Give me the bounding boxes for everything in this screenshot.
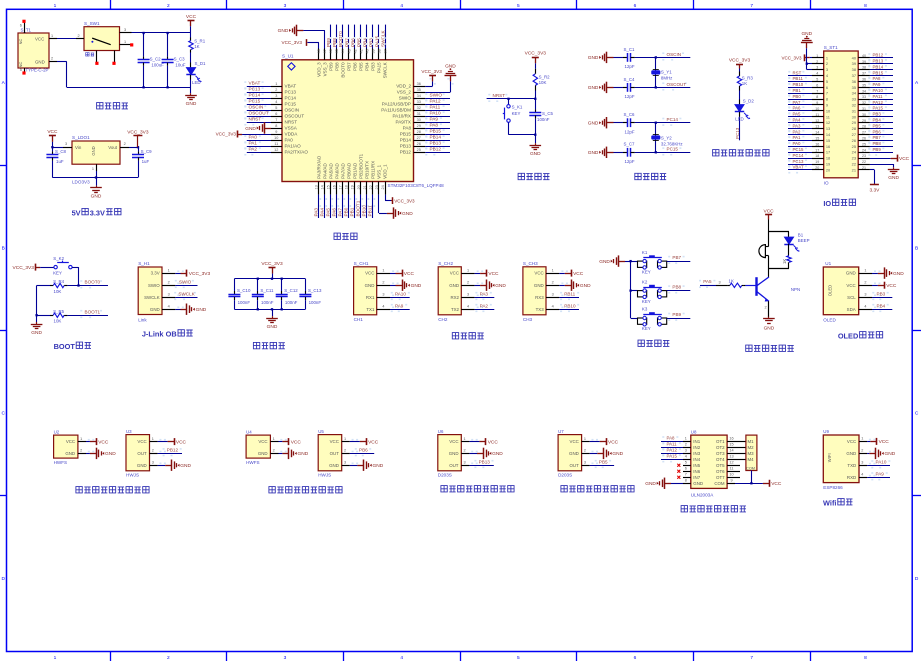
svg-text:PB10: PB10 <box>564 303 576 308</box>
svg-text:11: 11 <box>274 142 278 146</box>
LED alarm <box>788 232 790 238</box>
svg-text:PC13: PC13 <box>285 90 297 95</box>
svg-text:OSCOUT: OSCOUT <box>285 114 305 119</box>
svg-text:9: 9 <box>816 101 818 105</box>
caption stepper <box>681 506 687 512</box>
ground U1 VSS_1 <box>378 195 380 214</box>
svg-text:15: 15 <box>815 137 819 141</box>
svg-text:30: 30 <box>417 118 421 122</box>
svg-text:OT5: OT5 <box>716 463 725 468</box>
pin U6.3 <box>461 465 469 467</box>
svg-text:OSCIN: OSCIN <box>249 105 264 110</box>
svg-text:VCC: VCC <box>879 439 890 445</box>
svg-text:IN5: IN5 <box>693 463 700 468</box>
pin U1.43 PB7 <box>348 49 350 60</box>
svg-text:2: 2 <box>864 280 866 284</box>
svg-text:BOOT1: BOOT1 <box>85 309 101 314</box>
svg-text:10: 10 <box>815 107 819 111</box>
pin H1.1 <box>162 273 175 275</box>
svg-text:PA3: PA3 <box>480 291 489 296</box>
svg-text:GND: GND <box>373 463 384 469</box>
svg-text:COM: COM <box>746 467 755 471</box>
wire Vin <box>52 147 63 149</box>
svg-text:19: 19 <box>815 160 819 164</box>
capacitor S_C4 12pF <box>614 87 624 89</box>
power VCC U4 <box>279 441 283 443</box>
svg-text:PA15: PA15 <box>667 454 678 459</box>
svg-text:2: 2 <box>765 306 767 310</box>
svg-text:HWFS: HWFS <box>246 460 260 465</box>
svg-text:PC15: PC15 <box>249 99 261 104</box>
svg-text:PB8: PB8 <box>873 141 882 146</box>
svg-text:PA5: PA5 <box>326 208 331 217</box>
wire Vout <box>129 147 138 149</box>
svg-text:3: 3 <box>826 67 828 72</box>
ground crystal row <box>607 152 614 154</box>
svg-text:15: 15 <box>826 138 830 143</box>
svg-text:PA11: PA11 <box>667 442 678 447</box>
svg-text:11: 11 <box>730 467 734 471</box>
svg-text:26: 26 <box>852 138 856 143</box>
pin SW1.1 <box>120 44 131 46</box>
net PB7 key <box>667 261 691 263</box>
power VCC_3V3 U1 VDD_2 <box>425 86 432 88</box>
wire emitter down <box>768 301 770 317</box>
svg-text:12: 12 <box>826 120 830 125</box>
svg-text:B: B <box>915 245 918 251</box>
svg-text:4: 4 <box>861 473 863 477</box>
svg-text:NPN: NPN <box>791 287 800 292</box>
svg-text:6: 6 <box>275 112 277 116</box>
wire PC14 <box>635 122 691 124</box>
svg-text:25: 25 <box>417 148 421 152</box>
svg-text:S_C6: S_C6 <box>624 112 636 117</box>
svg-text:PA5: PA5 <box>793 112 802 117</box>
svg-text:36: 36 <box>862 78 866 82</box>
svg-text:21: 21 <box>363 185 367 189</box>
svg-text:1: 1 <box>584 437 586 441</box>
svg-text:10K: 10K <box>539 80 547 85</box>
svg-text:PB15: PB15 <box>873 70 884 75</box>
pin ST1.7 <box>812 93 824 95</box>
pin ST1.28 <box>858 128 870 130</box>
pin ST1.23 <box>858 158 870 160</box>
pin U1.21 PB10/TX <box>366 182 368 195</box>
svg-text:28: 28 <box>862 125 866 129</box>
capacitor S_C6 12pF <box>614 122 624 124</box>
svg-text:ESP8266: ESP8266 <box>823 485 843 490</box>
net PA2 CH2 <box>475 309 495 311</box>
svg-text:24: 24 <box>381 185 385 189</box>
pin U8.9 <box>727 483 735 485</box>
svg-text:9: 9 <box>275 130 277 134</box>
svg-text:NC: NC <box>18 39 23 45</box>
pin U3.1 <box>150 441 158 443</box>
pin ST1.37 <box>858 75 870 77</box>
svg-text:2: 2 <box>464 449 466 453</box>
pin U1.47 VSS_3 <box>324 49 326 60</box>
module U6 D203S body <box>438 435 462 471</box>
pin U5.2 <box>342 453 350 455</box>
svg-text:PB8: PB8 <box>672 285 681 290</box>
pin ST1.8 <box>812 99 824 101</box>
svg-text:PB3: PB3 <box>368 38 373 47</box>
svg-text:PB5: PB5 <box>358 62 363 71</box>
header S_ST1 body <box>824 51 859 178</box>
pin U2.1 <box>78 441 86 443</box>
svg-text:IN2: IN2 <box>693 445 700 450</box>
svg-text:6: 6 <box>826 85 828 90</box>
svg-text:32: 32 <box>862 101 866 105</box>
svg-text:1: 1 <box>80 437 82 441</box>
module U9 ESP8266 body <box>823 435 859 483</box>
svg-text:S_C9: S_C9 <box>141 149 153 154</box>
svg-text:22: 22 <box>369 185 373 189</box>
svg-text:GND: GND <box>588 85 599 91</box>
svg-text:PA4/AD: PA4/AD <box>322 162 327 178</box>
svg-text:VCC: VCC <box>488 271 499 277</box>
switch S_SW1 <box>84 27 120 51</box>
svg-text:39: 39 <box>862 60 866 64</box>
power VCC U7 <box>590 441 600 443</box>
pin U1.27 PB14 <box>414 140 426 142</box>
svg-text:PB9: PB9 <box>328 62 333 71</box>
svg-text:PA15: PA15 <box>377 62 382 73</box>
caption pyro sensor 1 <box>441 486 447 492</box>
svg-text:S_U1: S_U1 <box>282 54 294 59</box>
svg-text:VSS_2: VSS_2 <box>397 90 412 95</box>
svg-text:S_C2: S_C2 <box>150 56 162 61</box>
svg-text:3: 3 <box>552 292 554 296</box>
net PA9 CH1 <box>390 309 410 311</box>
driver U8 ULN2003A body <box>691 435 727 488</box>
svg-text:6: 6 <box>20 24 22 28</box>
svg-text:5: 5 <box>517 3 520 9</box>
capacitor S_C12 100nF <box>281 279 283 291</box>
svg-text:VDD_1: VDD_1 <box>383 164 388 179</box>
ground U1 VSS_2 <box>425 92 450 94</box>
wire alarm bottom node <box>769 268 789 270</box>
pin U1.30 PA9/TX <box>414 122 426 124</box>
svg-text:M1: M1 <box>748 439 755 444</box>
svg-text:GND: GND <box>893 271 904 277</box>
pin U1.35 VSS_2 <box>414 92 426 94</box>
pin ST1.26 <box>858 140 870 142</box>
svg-text:S_C13: S_C13 <box>308 288 322 293</box>
pin ST1.3 <box>812 69 824 71</box>
svg-text:12: 12 <box>815 119 819 123</box>
svg-text:35: 35 <box>852 85 856 90</box>
svg-text:GND: GND <box>186 101 197 107</box>
svg-text:VDDA: VDDA <box>285 132 299 137</box>
svg-text:S_ST1: S_ST1 <box>824 45 838 50</box>
svg-text:2: 2 <box>344 449 346 453</box>
power VCC U2 <box>86 441 90 443</box>
svg-text:GND: GND <box>449 283 459 288</box>
svg-text:CH1: CH1 <box>354 317 364 322</box>
svg-text:VCC: VCC <box>186 14 197 20</box>
pin U1.26 PB13 <box>414 146 426 148</box>
svg-text:S_SW1: S_SW1 <box>84 21 100 26</box>
ground U1 VSS_3 <box>297 30 304 32</box>
svg-text:PB11: PB11 <box>793 76 804 81</box>
svg-text:GND: GND <box>150 307 160 312</box>
pin U1.20 PB2/BOOT1 <box>360 182 362 195</box>
pin OLED.1 <box>859 273 872 275</box>
svg-text:4: 4 <box>400 655 403 661</box>
svg-text:SWIO: SWIO <box>148 283 160 288</box>
svg-text:PA4: PA4 <box>793 118 802 123</box>
svg-text:B1: B1 <box>798 233 804 238</box>
svg-text:OT3: OT3 <box>716 451 725 456</box>
svg-text:1: 1 <box>861 437 863 441</box>
pin U1.2 PC13 <box>271 92 282 94</box>
svg-text:VCC: VCC <box>404 271 415 277</box>
svg-text:7: 7 <box>750 655 753 661</box>
svg-text:PA3/RX/AD: PA3/RX/AD <box>316 155 321 179</box>
svg-text:PA7: PA7 <box>338 208 343 217</box>
caption alarm <box>746 345 752 351</box>
pin U1.48 VDD_3 <box>318 49 320 60</box>
svg-text:4: 4 <box>275 100 277 104</box>
pin H1.2 <box>162 285 175 287</box>
pin SW1.b1 <box>96 51 98 63</box>
svg-text:VCC_3V3: VCC_3V3 <box>729 58 751 64</box>
pin U9.4 <box>859 477 867 479</box>
pin U1.8 VSSA <box>271 128 282 130</box>
svg-text:PA6/AD: PA6/AD <box>334 162 339 178</box>
pin U4.1 <box>270 441 278 443</box>
caption MCU <box>334 233 340 239</box>
connector M1-M4 motor body <box>746 435 757 470</box>
svg-text:35: 35 <box>417 88 421 92</box>
resistor S_R4 10K <box>37 285 50 287</box>
svg-text:GND: GND <box>105 451 116 457</box>
pin H1.3 <box>162 297 175 299</box>
svg-text:3: 3 <box>65 142 67 146</box>
pin U8.11 <box>727 471 735 473</box>
svg-text:6: 6 <box>634 3 637 9</box>
svg-text:IN6: IN6 <box>693 469 700 474</box>
caption runled <box>713 150 719 156</box>
pin CH3.2 <box>546 285 559 287</box>
transistor Q1 NPN <box>755 277 757 296</box>
caption reset <box>518 173 524 179</box>
svg-text:PB1: PB1 <box>350 207 355 216</box>
svg-text:GND: GND <box>588 121 599 127</box>
ground reset <box>535 135 537 144</box>
wire COM <box>735 483 763 485</box>
svg-text:PA6: PA6 <box>793 106 802 111</box>
svg-text:PA11/USB/DM: PA11/USB/DM <box>381 108 411 113</box>
ground crystal row <box>607 87 614 89</box>
svg-text:36: 36 <box>852 79 856 84</box>
pin ST1.33 <box>858 99 870 101</box>
svg-text:16: 16 <box>333 185 337 189</box>
svg-text:PB1: PB1 <box>793 88 802 93</box>
svg-text:GND: GND <box>91 193 102 199</box>
resistor S_R3 1K <box>739 72 741 77</box>
svg-text:GND: GND <box>137 463 147 468</box>
svg-text:20: 20 <box>357 185 361 189</box>
svg-text:GND: GND <box>411 283 422 289</box>
pin CH3.1 <box>546 273 559 275</box>
module U4 HWFS body <box>246 435 270 458</box>
svg-text:3: 3 <box>718 280 720 284</box>
svg-text:2: 2 <box>382 280 384 284</box>
svg-text:IN3: IN3 <box>693 451 700 456</box>
key K3 <box>631 318 638 320</box>
pin U1.34 SWIO <box>414 98 426 100</box>
svg-text:2: 2 <box>80 449 82 453</box>
pin U1.36 VDD_2 <box>414 86 426 88</box>
svg-text:1K: 1K <box>782 259 787 264</box>
svg-text:19: 19 <box>826 162 830 167</box>
svg-text:28: 28 <box>852 126 856 131</box>
svg-text:12pF: 12pF <box>625 64 635 69</box>
pin U1.31 PA10/RX <box>414 116 426 118</box>
svg-text:1: 1 <box>864 268 866 272</box>
pin ST1.30 <box>858 116 870 118</box>
pin U8.8 <box>683 483 691 485</box>
caption power <box>97 103 103 109</box>
svg-text:C: C <box>915 411 919 417</box>
svg-text:1K: 1K <box>194 44 199 49</box>
net PB6 U5 <box>350 453 374 455</box>
svg-text:GND: GND <box>530 151 541 157</box>
ground U8 <box>665 483 672 485</box>
pin U1.9 VDDA <box>271 134 282 136</box>
svg-text:S_K1: S_K1 <box>512 105 523 110</box>
svg-text:NRST: NRST <box>249 117 262 122</box>
svg-text:BOOT0: BOOT0 <box>85 280 101 285</box>
svg-text:GND: GND <box>885 451 896 457</box>
svg-text:OT6: OT6 <box>716 469 725 474</box>
svg-text:1: 1 <box>467 268 469 272</box>
svg-text:PA8: PA8 <box>873 76 882 81</box>
svg-text:K3: K3 <box>642 307 648 312</box>
svg-text:VCC: VCC <box>450 271 459 276</box>
svg-text:GND: GND <box>445 63 456 69</box>
svg-text:PA4: PA4 <box>320 208 325 217</box>
svg-text:PB8: PB8 <box>334 62 339 71</box>
svg-text:5: 5 <box>20 68 22 72</box>
svg-text:1: 1 <box>464 437 466 441</box>
svg-text:PB11/RX: PB11/RX <box>370 161 375 179</box>
svg-text:20: 20 <box>815 166 819 170</box>
pin U1.45 PB8 <box>336 49 338 60</box>
pin U7.3 <box>582 465 590 467</box>
pin ST1.10 <box>812 110 824 112</box>
svg-text:VBAT: VBAT <box>249 81 261 86</box>
svg-text:2: 2 <box>552 280 554 284</box>
svg-text:8: 8 <box>864 3 867 9</box>
module U7 D203S body <box>558 435 582 471</box>
svg-text:M3: M3 <box>748 451 755 456</box>
svg-text:PB7: PB7 <box>346 62 351 71</box>
svg-text:PA2: PA2 <box>793 129 802 134</box>
svg-text:PB0: PB0 <box>344 207 349 216</box>
pin U8.10 <box>727 477 735 479</box>
svg-text:1: 1 <box>685 437 687 441</box>
svg-text:3: 3 <box>467 292 469 296</box>
svg-text:PB6: PB6 <box>352 62 357 71</box>
svg-text:U3: U3 <box>126 429 132 434</box>
connector S_CH1 body <box>354 267 377 315</box>
svg-text:PB12: PB12 <box>430 147 442 152</box>
module U5 HWJS body <box>318 435 342 471</box>
svg-text:PA9: PA9 <box>430 117 439 122</box>
pin LDO1.3 Vin <box>63 147 72 149</box>
svg-text:40: 40 <box>862 54 866 58</box>
net SWIO H1.2 <box>175 285 197 287</box>
svg-text:PB13: PB13 <box>479 459 491 464</box>
ground U5 <box>350 465 358 467</box>
svg-text:11: 11 <box>815 113 819 117</box>
wire boot rail <box>36 286 38 323</box>
svg-text:18: 18 <box>826 156 830 161</box>
svg-text:5: 5 <box>275 106 277 110</box>
svg-text:17: 17 <box>826 150 830 155</box>
power VCC_3V3 boot <box>35 264 37 271</box>
svg-text:PB4: PB4 <box>873 118 882 123</box>
svg-text:NRST: NRST <box>493 93 506 98</box>
svg-text:PB3: PB3 <box>877 291 886 296</box>
svg-text:33: 33 <box>862 95 866 99</box>
svg-text:S_C11: S_C11 <box>260 288 274 293</box>
svg-text:SWCLK: SWCLK <box>144 295 160 300</box>
svg-text:PB9: PB9 <box>672 312 681 317</box>
svg-text:Vout: Vout <box>108 145 118 150</box>
svg-text:Link: Link <box>138 317 147 322</box>
pin CH2.3 <box>461 297 474 299</box>
svg-text:S_LDO1: S_LDO1 <box>72 135 90 140</box>
svg-text:VCC: VCC <box>534 271 543 276</box>
svg-text:3: 3 <box>284 655 287 661</box>
pin ST1.19 <box>812 164 824 166</box>
svg-text:1: 1 <box>54 655 57 661</box>
svg-text:VCC_3V3: VCC_3V3 <box>421 69 442 74</box>
pin U1.42 PB6 <box>354 49 356 60</box>
pin U8.3 <box>683 453 691 455</box>
svg-text:S_C5: S_C5 <box>542 111 554 116</box>
svg-text:PA10/RX: PA10/RX <box>392 114 411 119</box>
svg-text:PB9: PB9 <box>326 38 331 47</box>
svg-text:OLED: OLED <box>827 285 832 296</box>
svg-text:BOOT1: BOOT1 <box>356 200 361 216</box>
svg-text:14: 14 <box>321 185 325 189</box>
ground boot <box>36 322 38 324</box>
svg-text:23: 23 <box>852 156 856 161</box>
power VCC CH1 <box>390 273 396 275</box>
svg-text:BOOT0: BOOT0 <box>340 62 345 78</box>
svg-text:ULN2003A: ULN2003A <box>691 492 714 497</box>
svg-text:12: 12 <box>729 461 733 465</box>
ground H1.4 <box>175 309 180 311</box>
svg-text:10uF: 10uF <box>175 62 185 67</box>
svg-text:PA8: PA8 <box>403 126 412 131</box>
svg-text:SWIO: SWIO <box>430 93 443 98</box>
svg-text:U5: U5 <box>318 429 324 434</box>
pin U1.33 PA12/USB/DP <box>414 104 426 106</box>
svg-text:1: 1 <box>816 54 818 58</box>
pin U1.37 SWCLK <box>385 49 387 60</box>
pin U8.2 <box>683 447 691 449</box>
svg-text:S_R2: S_R2 <box>539 74 551 79</box>
net PA10 CH1 <box>390 297 410 299</box>
svg-text:PB14: PB14 <box>873 64 884 69</box>
svg-text:PB7: PB7 <box>344 38 349 47</box>
